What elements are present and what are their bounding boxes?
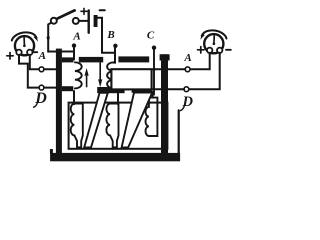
plate 2 (slanted plate, right) [122,93,153,148]
arrow down (right cell current) [98,63,102,87]
connector C-wire to column3 [152,92,154,98]
wire horizontal to node A stub [48,47,74,52]
svg-text:A: A [183,52,191,64]
junction dot C-bus [152,68,155,71]
column 2 (coiled electrode in vessel, middle) [106,104,118,148]
column 3 (coiled electrode in vessel, right) [145,98,157,136]
tank bottom-left stub [50,149,53,153]
connector arm2 to column1 [73,91,75,104]
bus bar 1 (top middle) [79,57,103,63]
tank right wall [161,54,168,157]
plate B box (middle plate) [111,69,151,89]
wire G1 minus terminal to upper-left bus [30,55,39,70]
wire G1 plus terminal to lower-left bus [19,55,39,88]
label D-left [34,90,48,107]
plate1 top cap bar [97,87,124,93]
label D-right [180,94,193,110]
arrow up (left cell current) [85,68,89,87]
svg-text:A: A [38,50,46,62]
coil B (spiral under node B) [107,62,114,88]
node A (junction dot) [72,43,76,47]
tank left wall [56,49,62,158]
wire G2 plus terminal to upper-right bus [190,53,210,70]
terminal D-right (open circle) [184,87,189,92]
node C (junction dot) [152,46,156,50]
terminal A-left (open circle) [39,67,44,72]
label + (battery) [81,8,87,14]
plate 1 (slanted plate, left) [84,93,108,148]
coil A (spiral under node A) [75,62,82,88]
node B (junction dot) [113,44,117,48]
label + (G1 left terminal) [7,53,13,59]
wire node A down to electrode arm [73,46,75,60]
tank right wall top cap [160,54,170,60]
label - (battery) [100,9,105,11]
wire node C down to lower bus [153,48,155,95]
label - (G2) [226,49,231,51]
terminal D-left (open circle) [39,85,44,90]
plate2 top cap bar [132,87,153,92]
electrode arm bottom-left [62,86,73,91]
wire battery to node B and down into tank [98,18,116,53]
battery B1 short plate [94,15,98,27]
tank stand right upright [178,110,180,153]
wire switch to battery [79,20,87,22]
wire node B stub down to bus bar 2 and coil B [113,46,115,63]
tank bottom bar [50,153,180,161]
svg-text:B: B [106,29,114,41]
current arrow on switch wire [46,37,50,43]
inner vessel [69,103,168,149]
wire A-left terminal to tank left wall [44,68,56,70]
column 1 (coiled electrode in vessel, left) [71,104,83,148]
bus bar 2 (top right) [118,56,149,62]
svg-text:A: A [72,31,80,43]
ammeter G2 (right meter) [200,30,226,53]
switch S (knife switch) [51,10,79,24]
label - (G1 right terminal) [33,51,37,53]
terminal A-right (open circle) [185,67,190,72]
label + (G2) [198,47,204,53]
wire lower bus (to plate caps and wall) [100,88,184,90]
wire D-left terminal to tank left wall [44,87,56,89]
svg-text:C: C [147,29,155,41]
ammeter G1 (left meter) [12,32,38,55]
wire upper-right bus to node C [154,68,185,70]
wire upper-left bus to switch [48,23,51,52]
connector plate1-cap to column2 [117,93,119,105]
wire G2 minus terminal to lower-right bus [189,53,220,89]
battery B1 long plate [87,11,89,33]
electrode arm top-left [62,57,74,62]
